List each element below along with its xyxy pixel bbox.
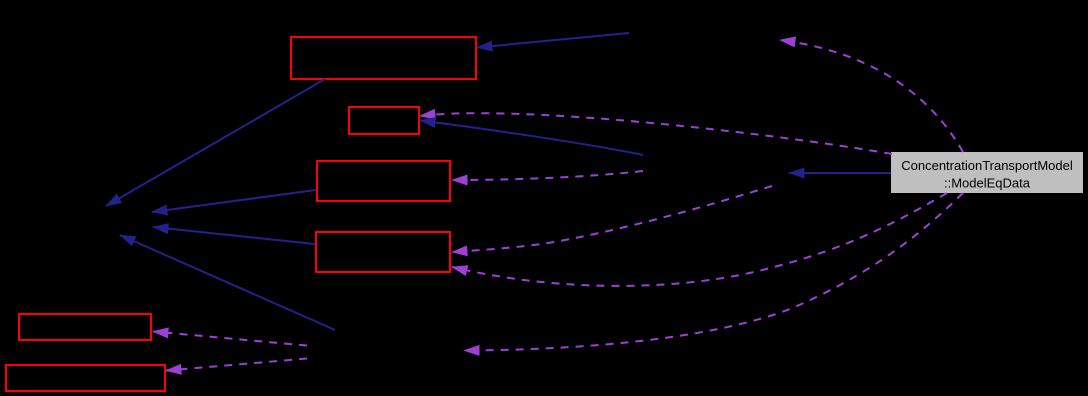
blue inheritance edge B4: box3 -> hidden left node [152,190,316,212]
purple usage edge P6: ModelEqData -> hidden bottom node (long curve) [464,193,963,351]
purple usage edge P1: ModelEqData -> hidden top node [780,40,963,152]
node box5 (red class box, bottom left) [19,314,151,340]
node box2 (small red class box) [349,107,419,134]
purple usage edge P8: hidden bottom node -> box6 [166,359,307,371]
blue inheritance edge B5: box4 -> hidden left node [153,227,315,244]
purple usage edge P7: hidden bottom node -> box5 [153,332,307,346]
node box6 (red class box, bottom left lower) [6,365,165,391]
blue inheritance edge B7: ModelEqData -> hidden center node [789,172,891,174]
blue inheritance edge B6: hidden bottom node -> hidden left node [120,235,335,330]
node ConcentrationTransportModel::ModelEqData (gray filled) [891,152,1083,193]
blue inheritance edge B3: box1 -> hidden left node [106,79,325,206]
purple usage edge P5: ModelEqData -> box4 lower (long curve) [452,193,947,286]
svg-text:::ModelEqData: ::ModelEqData [944,176,1031,191]
svg-text:ConcentrationTransportModel: ConcentrationTransportModel [901,158,1073,173]
blue inheritance edge B1: hidden top node -> box1 [477,33,629,48]
purple usage edge P4: hidden center node -> box4 upper [452,186,772,252]
node box4 (red class box) [316,232,450,272]
blue inheritance edge B2: hidden center node -> box2 [420,121,643,156]
node box3 (red class box, middle) [317,161,450,201]
purple usage edge P2: ModelEqData -> box2 [420,113,892,154]
node box1 (red class box, top) [291,37,476,79]
purple usage edge P3: hidden center node -> box3 [452,171,643,180]
